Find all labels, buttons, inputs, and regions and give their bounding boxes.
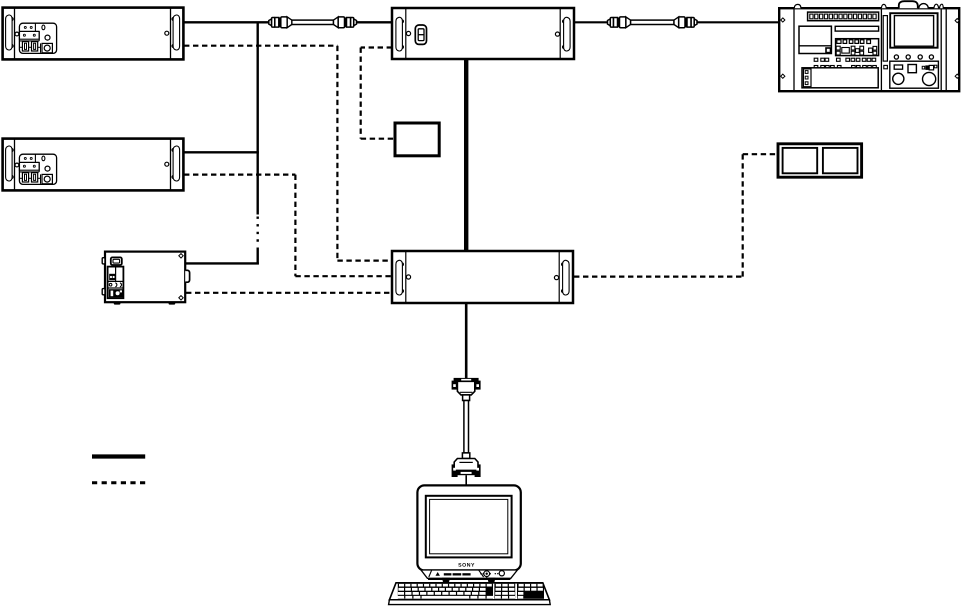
coax cable B (right, with BNC plugs) bbox=[608, 17, 698, 28]
control panel top button row bbox=[808, 12, 879, 21]
wire: processor to serial cable bbox=[465, 303, 468, 379]
wire: processor to tally box (dashed) bbox=[574, 154, 777, 276]
edit processor chassis bbox=[392, 251, 573, 303]
VTR 2 (rack unit) right rack handle bbox=[172, 146, 180, 181]
control panel top bumps (levers) bbox=[794, 1, 943, 8]
VTR 2 (rack unit) connector sub-panel bbox=[19, 154, 56, 184]
wire: switcher to control panel (solid) bbox=[575, 21, 779, 23]
control panel keypad block bbox=[836, 39, 879, 56]
control panel display window bbox=[799, 26, 831, 53]
keyboard body bbox=[389, 583, 551, 605]
control panel title bar bbox=[835, 26, 878, 31]
monitor feet bbox=[443, 578, 495, 581]
wire: switcher to processor thick video bus bbox=[464, 59, 468, 251]
tally box right window bbox=[823, 148, 858, 173]
camera adaptor feet bbox=[114, 302, 175, 305]
keyboard keys bbox=[397, 584, 544, 599]
control panel knobs row bbox=[894, 55, 933, 59]
svg-text:SONY: SONY bbox=[458, 563, 475, 569]
wire: switcher to sync box (dashed) bbox=[361, 48, 394, 139]
VTR 1 (rack unit) side screw bbox=[15, 32, 19, 36]
serial cable run bbox=[464, 401, 469, 453]
monitor base strip bbox=[421, 570, 517, 579]
camera adaptor connector panel bbox=[108, 267, 124, 299]
VTR 1 (rack unit) chassis bbox=[3, 8, 184, 60]
wire: VTR2 control (dashed) bbox=[184, 175, 392, 277]
tally box chassis bbox=[778, 144, 862, 177]
VTR 1 (rack unit) right rack handle bbox=[172, 15, 180, 50]
control panel preview screen bbox=[883, 13, 937, 61]
camera adaptor right handle lug bbox=[185, 270, 189, 282]
video switcher left handle bbox=[396, 17, 404, 51]
legend dashed line sample bbox=[92, 481, 145, 484]
edit processor right handle bbox=[561, 260, 569, 295]
camera adaptor left lugs bbox=[102, 258, 105, 295]
edit processor right screw hole bbox=[554, 276, 558, 280]
wire: camera adaptor video out (solid) bbox=[186, 262, 259, 264]
tally box left window bbox=[783, 148, 818, 173]
camera adaptor top connector bbox=[111, 257, 122, 265]
wire: VTR1 video out to switcher (solid) bbox=[184, 21, 392, 23]
VTR 1 (rack unit) front screw hole bbox=[165, 31, 169, 35]
edit processor left screw hole bbox=[406, 275, 410, 279]
control panel chassis bbox=[779, 8, 959, 91]
video switcher front connector bbox=[415, 25, 426, 44]
monitor body bbox=[417, 485, 520, 570]
VTR 2 (rack unit) chassis bbox=[3, 139, 184, 191]
coax cable A (left, with BNC plugs) bbox=[269, 17, 357, 28]
control panel transport section bbox=[890, 61, 939, 88]
VTR 1 (rack unit) connector sub-panel bbox=[19, 23, 56, 53]
control panel single key bbox=[884, 65, 888, 68]
camera adaptor chassis bbox=[105, 252, 185, 303]
VTR 1 (rack unit) left rack handle bbox=[6, 15, 14, 50]
sync generator box bbox=[395, 123, 439, 156]
camera adaptor corner screws bbox=[179, 254, 183, 300]
control panel small key rows bbox=[814, 58, 876, 68]
video switcher chassis bbox=[392, 8, 574, 59]
wire: video trunk vertical bbox=[257, 22, 259, 264]
control panel corner screws bbox=[781, 18, 960, 78]
VTR 2 (rack unit) side screw bbox=[15, 163, 19, 167]
VTR 2 (rack unit) front screw hole bbox=[165, 162, 169, 166]
monitor base shadow bbox=[428, 578, 510, 580]
serial cable upper D-sub connector bbox=[452, 378, 481, 401]
video switcher left screw hole bbox=[406, 31, 410, 35]
legend solid line sample bbox=[92, 454, 145, 458]
control panel jog panel bbox=[802, 68, 878, 88]
video switcher right screw hole bbox=[555, 32, 559, 36]
wire: VTR1 control (dashed) bbox=[184, 46, 392, 261]
VTR 2 (rack unit) left rack handle bbox=[6, 146, 14, 181]
video switcher right handle bbox=[562, 17, 570, 51]
monitor screen bbox=[426, 496, 512, 558]
wire: cable to monitor bbox=[465, 475, 467, 486]
wire: camera adaptor control (dashed) bbox=[186, 292, 392, 294]
serial cable lower D-sub connector bbox=[452, 453, 481, 477]
edit processor left handle bbox=[396, 260, 404, 295]
wire: VTR2 video out (solid) bbox=[184, 151, 259, 153]
